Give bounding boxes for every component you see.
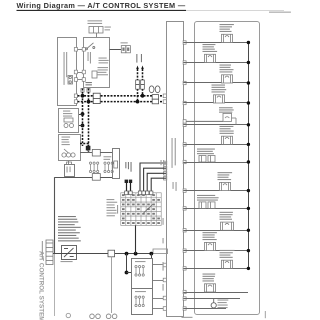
junction collector: [247, 189, 250, 192]
inline connector on V4: [141, 80, 145, 89]
pin row 1: [183, 41, 186, 44]
A/T connector code: [173, 182, 177, 191]
TCM supply pin a: [125, 180, 128, 183]
wire row 11 (stop lamp switch): [184, 250, 249, 252]
junction W2 a: [125, 252, 129, 256]
pin row 3: [183, 81, 186, 84]
page id text top right: [269, 12, 291, 13]
wire row 2 (torque converter clutch solenoid): [184, 62, 249, 64]
wire row 12 (throttle position sensor): [184, 268, 249, 270]
turbine sensor 2: [205, 284, 216, 292]
junction collector: [247, 160, 250, 163]
TCM connector grid: [121, 193, 161, 226]
vehicle speed sensor label: [218, 172, 233, 180]
junction collector: [247, 61, 250, 64]
harness wire V4 (to TCM): [142, 69, 144, 96]
wire label a: [163, 218, 164, 225]
ground label: [218, 300, 229, 309]
pin box I out a: [163, 263, 166, 267]
wire branch to box I: [127, 272, 132, 274]
harness wire V3 (to TCM): [137, 69, 139, 102]
junction dashed: [81, 94, 85, 98]
wire into TCM b: [130, 183, 132, 193]
box C label: [62, 137, 71, 146]
stub to V1 a: [79, 114, 83, 116]
wire fuse to relay box: [96, 33, 98, 38]
wire A/T to TCM 3: [147, 173, 167, 193]
connector strip F502: [46, 240, 53, 265]
pin V2 top: [87, 89, 90, 93]
connector M71 on H1/H2: [93, 93, 100, 103]
ground circles G2 G3: [90, 314, 117, 319]
turbine revolution sensor: [199, 202, 215, 209]
sensor element: [114, 161, 118, 168]
wire box I out a: [152, 264, 167, 266]
torque converter clutch solenoid: [205, 54, 216, 62]
connector M30: [121, 46, 130, 53]
pin row 14: [183, 297, 186, 300]
TCM entry connectors: [125, 191, 153, 195]
wire A/T to TCM 4: [151, 178, 167, 193]
pin 4: [82, 70, 85, 74]
box J pins: [135, 296, 144, 307]
resistor element: [64, 248, 74, 257]
shift solenoid B: [214, 95, 225, 103]
relay coil: [92, 71, 97, 78]
revolution sensor label: [197, 149, 215, 155]
wire row 13 (turbine sensor 2): [184, 292, 249, 294]
wire faint continuation: [54, 254, 56, 316]
line pressure solenoid label: [220, 24, 234, 32]
junction dashed: [141, 94, 145, 98]
pin row 5: [183, 123, 186, 126]
wire A/T fluid temp sensor second lead: [184, 120, 224, 122]
junction dashed: [136, 100, 140, 104]
relay label (rotated): [88, 52, 92, 64]
connector M30 label: [121, 42, 128, 43]
pin box J out a: [163, 296, 166, 300]
wire A-E low: [78, 79, 83, 81]
pin row 4: [183, 101, 186, 104]
box C contacts: [62, 149, 75, 157]
grommet G1: [149, 86, 160, 104]
wire label e: [161, 160, 165, 166]
pin 8: [74, 100, 77, 104]
pin 2: [82, 48, 85, 52]
dropping resistor caption: [61, 261, 73, 262]
pin row 13: [183, 290, 186, 293]
connector on W1: [92, 149, 100, 156]
pin row 2: [183, 61, 186, 64]
A/T fluid temperature sensor label: [219, 107, 234, 113]
wire row 6 (overrun clutch solenoid): [184, 144, 249, 146]
wire row 10 (PNP switch): [184, 230, 249, 232]
inhibitor connector box D: [65, 165, 75, 177]
shift solenoid A label: [220, 65, 234, 73]
pin row 11: [183, 249, 186, 252]
box J title: [135, 291, 146, 292]
line pressure solenoid: [222, 34, 233, 42]
shift solenoid B label: [212, 85, 227, 93]
wire W2 main run: [53, 253, 167, 255]
wire label c: [163, 262, 164, 271]
ignition switch label: [88, 20, 103, 24]
A/T device box I: [132, 259, 153, 289]
wire box J out b: [152, 308, 167, 310]
pin H2 end: [163, 100, 166, 104]
turbine revolution sensor label: [197, 195, 219, 201]
wire branch down: [126, 254, 128, 273]
wire W3: [55, 177, 113, 179]
TCM connector code: [117, 205, 118, 214]
wire label d: [163, 284, 164, 291]
A/T assembly box: [167, 22, 184, 317]
harness wire H2: [78, 101, 167, 103]
wire color labels L/B: [136, 54, 142, 63]
junction collector: [247, 229, 250, 232]
fuse rating text: [105, 27, 111, 31]
pin 5: [74, 78, 77, 82]
shift solenoid A: [222, 75, 233, 83]
pin box I out b: [163, 278, 166, 282]
pin box J out b: [163, 307, 166, 311]
junction collector: [247, 101, 250, 104]
title rule: [17, 9, 187, 11]
overrun clutch solenoid: [222, 136, 233, 144]
pin 7: [74, 94, 77, 98]
A/T assembly label (rotated): [172, 138, 176, 168]
wire label b: [163, 238, 164, 243]
relay pin numbers: [86, 82, 92, 85]
dropping resistor box B: [59, 109, 79, 133]
vehicle speed sensor: [220, 182, 231, 190]
junction W2 c: [149, 252, 153, 256]
connector pins group b: [104, 162, 113, 173]
box B label: [63, 111, 72, 117]
TCM grid cell marks: [122, 194, 160, 224]
junction collector: [247, 249, 250, 252]
ground wire drop: [111, 257, 113, 313]
A/T assembly internal components box: [195, 22, 260, 315]
footer text bottom right: [265, 311, 266, 318]
relay terminal text: [98, 67, 109, 75]
wire row 14 (dropping resistor link): [184, 298, 241, 300]
box B element: [64, 118, 74, 128]
pin row 8: [183, 189, 186, 192]
wire row 7 (revolution sensor): [184, 162, 249, 164]
pin fan 2: [164, 166, 167, 170]
pin row 15: [183, 307, 186, 310]
A/T shift lock relay box: [84, 38, 110, 88]
stop lamp switch: [205, 242, 216, 250]
harness wire H1: [78, 95, 167, 97]
pin row 7: [183, 160, 186, 163]
junction branch: [125, 271, 129, 275]
wire A/T to TCM 1: [140, 163, 167, 193]
pin row 9: [183, 207, 186, 210]
TCM grid diagonal: [143, 205, 153, 214]
fuse block label (rotated): [64, 52, 68, 85]
connector on W3: [92, 174, 100, 181]
stop lamp switch label: [203, 232, 217, 240]
pin row 12: [183, 267, 186, 270]
PNP switch label: [220, 212, 233, 220]
junction dashed: [87, 100, 91, 104]
stub to V1 b: [79, 125, 83, 127]
stub W2 to box I: [151, 254, 153, 258]
pin row 10: [183, 229, 186, 232]
collector wire: [248, 43, 250, 269]
wire box I out b: [152, 280, 167, 282]
junction collector: [247, 143, 250, 146]
fuse F1: [68, 76, 73, 85]
A/T fluid temperature sensor: [223, 113, 236, 124]
pin fan 1: [164, 161, 167, 165]
inline connector on V3: [136, 80, 140, 89]
fuse F2 (10A): [89, 27, 103, 34]
pin H1 end: [163, 94, 166, 98]
dropping resistor legend text: [58, 216, 81, 241]
pin 3: [74, 70, 77, 74]
TCM supply pin b: [129, 180, 132, 183]
harness wire V1: [82, 89, 84, 147]
box D text: [67, 167, 71, 173]
pin 6: [82, 78, 85, 82]
throttle position sensor label: [220, 250, 235, 258]
wire TCM ground drop: [135, 225, 137, 253]
arrowhead V4: [141, 66, 144, 70]
pin row 6: [183, 143, 186, 146]
junction collector: [247, 81, 250, 84]
torque converter clutch solenoid label: [203, 44, 218, 52]
wire row 9 (turbine revolution sensor): [184, 208, 249, 210]
wire labels above TCM pair: [125, 162, 131, 172]
box I title: [135, 261, 146, 262]
pin 1: [74, 48, 77, 52]
turbine sensor 2 label: [203, 274, 216, 282]
wire relay to connector: [110, 49, 122, 51]
TCM label text: [107, 199, 118, 216]
wire row 5 (A/T fluid temperature sensor): [184, 124, 249, 126]
junction collector: [247, 123, 250, 126]
junction W2 b: [134, 252, 138, 256]
wire row 15 (ground terminal): [184, 308, 227, 310]
fuse block (power supply) box: [58, 38, 77, 106]
relay contact switch: [86, 43, 95, 50]
junction dashed: [81, 124, 85, 128]
PNP switch: [221, 222, 234, 230]
connector strip label: [42, 241, 43, 259]
revolution sensor: [199, 156, 215, 163]
box D key: [67, 162, 72, 164]
connector on W2: [108, 250, 115, 257]
revolution sensor box H: [113, 149, 120, 179]
connector before A/T assy: [153, 249, 168, 254]
ground circle G1: [66, 313, 70, 317]
wire row 8 (vehicle speed sensor): [184, 190, 249, 192]
A/T connector number below: [182, 317, 193, 318]
wire row 4 (shift solenoid B): [184, 102, 249, 104]
pin fan 3: [164, 172, 167, 176]
relay coil label: [99, 58, 109, 64]
pin fan 4: [164, 176, 167, 180]
junction collector: [247, 41, 250, 44]
connector pins group a: [89, 162, 98, 173]
junction dashed: [81, 112, 85, 116]
box I pins: [135, 266, 144, 277]
svg-text:A/T CONTROL SYSTEM: A/T CONTROL SYSTEM: [38, 251, 45, 320]
wire A/T to TCM 2: [144, 168, 167, 193]
stub C to D: [68, 161, 70, 164]
wire A-E mid: [78, 72, 83, 74]
wire row 3 (shift solenoid A): [184, 82, 249, 84]
junction collector: [247, 207, 250, 210]
harness wire into box C: [80, 144, 88, 153]
pins label: [104, 156, 112, 160]
pin temp sensor lead: [183, 120, 186, 123]
wire W3 drop: [54, 177, 56, 253]
shift switch box J: [132, 289, 153, 315]
wire A-E top: [78, 49, 83, 51]
wire row 1 (line pressure solenoid): [184, 42, 249, 44]
wire box J out a: [152, 298, 167, 300]
overrun clutch solenoid label: [220, 126, 234, 134]
junction square: [86, 146, 91, 151]
dropping resistor: [62, 246, 77, 260]
throttle position sensor: [222, 260, 233, 268]
arrowhead V3: [136, 66, 139, 70]
junction collector: [247, 267, 250, 270]
pin V1 top: [81, 89, 84, 93]
harness wire V2: [88, 89, 90, 153]
wire into TCM a: [126, 183, 128, 193]
park/neutral position switch box C: [59, 135, 81, 161]
wire W1: [80, 152, 112, 154]
svg-text:Wiring Diagram — A/T CONTROL S: Wiring Diagram — A/T CONTROL SYSTEM —: [17, 1, 186, 10]
ground symbol bottom row: [211, 299, 216, 308]
